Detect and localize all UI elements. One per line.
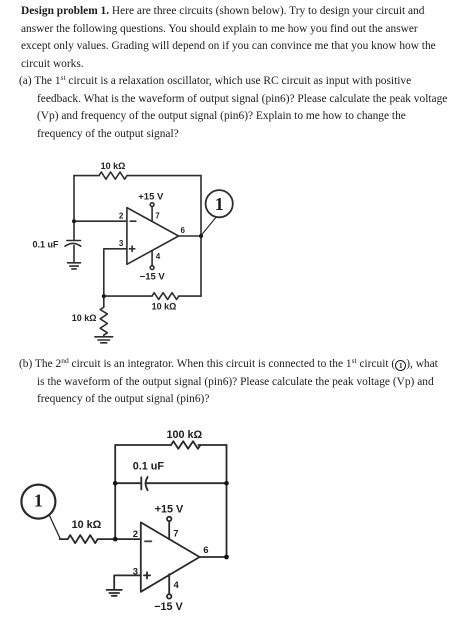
wire node to capacitor	[73, 221, 75, 240]
op-amp minus input sign	[145, 540, 152, 542]
wire R5 to pin 2	[98, 538, 141, 540]
svg-text:7: 7	[173, 528, 178, 539]
paragraph: question (a)	[19, 73, 447, 143]
resistor R2 zigzag (horizontal 10k)	[152, 293, 179, 300]
pin label 7	[155, 212, 160, 221]
pin label 7	[173, 528, 178, 539]
resistor R4 zigzag (100k feedback)	[171, 441, 200, 449]
op-amp U2 triangle	[141, 522, 200, 591]
label C2 0.1 uF	[133, 460, 165, 472]
svg-text:4: 4	[156, 252, 161, 261]
pin label 3	[133, 567, 138, 578]
svg-text:0.1 uF: 0.1 uF	[33, 240, 60, 250]
pin label 4	[174, 580, 180, 591]
node: cap left junction	[113, 481, 118, 486]
svg-text:4: 4	[174, 580, 180, 591]
node: pin 2 input junction	[113, 537, 118, 542]
wire pin 3 to ground	[114, 575, 141, 589]
capacitor C1 plates	[65, 241, 81, 247]
label +15 V (pin 7 supply)	[138, 191, 164, 202]
ground (below C1)	[68, 263, 81, 269]
pin 4 stub and terminal	[167, 574, 171, 598]
ground (pin 3)	[107, 590, 122, 596]
pin label 6	[203, 545, 208, 556]
wire top-left segment	[115, 444, 171, 446]
resistor R5 zigzag (input 10k)	[68, 535, 98, 543]
pointer line from connector 1	[49, 515, 60, 538]
pin label 3	[119, 239, 124, 248]
wire R2 to right vertical	[179, 295, 201, 297]
wire node to pin 2	[74, 220, 127, 222]
connector circle 1 (output marker)	[206, 190, 233, 217]
label R3 10 kOhm	[72, 313, 97, 323]
svg-text:6: 6	[181, 226, 186, 235]
node: output junction	[224, 555, 229, 560]
wire cap-row left segment	[115, 482, 141, 484]
paragraph: intro text	[21, 3, 436, 73]
wire right vertical	[200, 176, 202, 297]
label -15 V (pin 4 supply)	[154, 601, 183, 613]
node: capacitor / pin2 junction	[72, 219, 76, 223]
label R1 10 kOhm	[101, 161, 126, 171]
wire left vertical	[114, 445, 116, 539]
svg-text:10 kΩ: 10 kΩ	[72, 313, 97, 323]
pin 7 stub and terminal	[150, 203, 154, 221]
wire right vertical	[226, 445, 228, 557]
node: bottom junction	[102, 294, 106, 298]
op-amp plus input sign	[129, 246, 134, 251]
wire bottom node to R2	[104, 295, 152, 297]
pin label 6	[181, 226, 186, 235]
wire cap-row right segment	[146, 482, 227, 484]
svg-text:2: 2	[133, 529, 138, 540]
node: output junction	[199, 234, 203, 238]
capacitor C2 plates	[141, 477, 147, 490]
wire capacitor to ground	[73, 246, 75, 263]
svg-text:2: 2	[119, 212, 124, 221]
pin 4 stub and terminal	[150, 250, 154, 269]
svg-text:−15 V: −15 V	[154, 601, 183, 613]
svg-text:1: 1	[34, 491, 43, 511]
label R5 10 kOhm	[72, 519, 102, 531]
svg-text:10 kΩ: 10 kΩ	[72, 519, 102, 531]
svg-text:0.1 uF: 0.1 uF	[133, 460, 165, 472]
svg-text:100 kΩ: 100 kΩ	[166, 429, 202, 441]
svg-text:10 kΩ: 10 kΩ	[152, 301, 177, 311]
wire top-right segment	[127, 175, 201, 177]
wire top-right segment	[198, 444, 226, 446]
pin label 4	[156, 252, 161, 261]
wire left vertical	[73, 176, 75, 222]
svg-text:1: 1	[215, 194, 224, 214]
node: cap right junction	[224, 481, 229, 486]
op-amp U1 triangle	[127, 208, 179, 265]
pin label 2	[133, 529, 138, 540]
pointer line to connector 1	[201, 217, 216, 235]
svg-text:+15 V: +15 V	[138, 191, 164, 202]
svg-text:3: 3	[119, 239, 124, 248]
pin 7 stub and terminal	[167, 517, 171, 540]
connector circle 1 (input marker)	[21, 485, 55, 519]
wire input lead	[60, 538, 68, 540]
wire output pin 6	[200, 556, 227, 558]
label -15 V (pin 4 supply)	[140, 272, 166, 283]
op-amp plus input sign	[144, 572, 150, 578]
op-amp minus input sign	[130, 220, 136, 222]
svg-text:3: 3	[133, 567, 138, 578]
wire top-left segment	[74, 175, 99, 177]
svg-text:10 kΩ: 10 kΩ	[101, 161, 126, 171]
label C1 0.1 uF	[33, 240, 60, 250]
label R2 10 kOhm	[152, 301, 177, 311]
ground (below R3)	[95, 337, 113, 343]
resistor R3 zigzag (vertical 10k)	[100, 296, 107, 337]
label R4 100 kOhm	[166, 429, 202, 441]
wire pin 3 to bottom node	[104, 249, 127, 296]
svg-text:6: 6	[203, 545, 208, 556]
svg-text:−15 V: −15 V	[140, 272, 166, 283]
resistor R1 zigzag	[99, 172, 127, 179]
svg-text:7: 7	[155, 212, 160, 221]
wire output pin 6	[179, 235, 201, 237]
label +15 V (pin 7 supply)	[155, 503, 184, 515]
pin label 2	[119, 212, 124, 221]
paragraph: question (b)	[19, 356, 438, 409]
svg-text:+15 V: +15 V	[155, 503, 184, 515]
